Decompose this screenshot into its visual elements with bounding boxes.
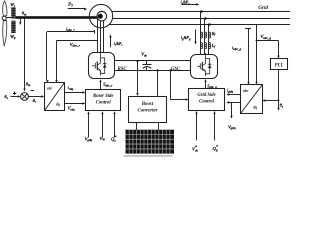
PV caption shadow <box>124 155 173 157</box>
stator bus line 1 <box>112 11 290 13</box>
node dc bottom <box>156 69 158 71</box>
generator shaft dot <box>98 14 103 19</box>
svg-text:RSC: RSC <box>118 67 128 72</box>
svg-text:θm: θm <box>26 81 31 87</box>
svg-text:Wt: Wt <box>10 2 15 8</box>
gearbox block bottom <box>11 20 15 33</box>
theta_m sensor arrow <box>19 19 21 25</box>
wire V_rdq <box>65 102 85 104</box>
generator outer circle <box>89 4 112 27</box>
svg-text:GSC: GSC <box>171 67 181 72</box>
inductor Lf b <box>204 43 206 49</box>
wire vdc sense <box>171 70 189 100</box>
wire V_abc_g tap <box>255 25 279 85</box>
summing junction <box>21 93 29 101</box>
svg-text:θr: θr <box>33 98 37 104</box>
svg-text:ig&Pg: ig&Pg <box>181 35 191 41</box>
node theta_s <box>278 100 280 102</box>
wire PLL theta_s out <box>262 70 279 111</box>
svg-text:Vrdq: Vrdq <box>68 106 75 112</box>
wire dc to boost 1 <box>136 61 138 96</box>
svg-text:Lf: Lf <box>211 43 216 49</box>
svg-text:ir&Pr: ir&Pr <box>114 41 124 47</box>
generator inner circle <box>97 11 107 21</box>
abc/dq transform rotor side <box>45 83 65 111</box>
inductor Lf a <box>200 43 202 49</box>
label plus <box>13 92 16 95</box>
capacitor Vdc <box>143 61 152 70</box>
svg-text:Vabc_r: Vabc_r <box>70 42 81 48</box>
svg-text:Vgdq: Vgdq <box>228 124 236 130</box>
rotor wire a <box>97 16 99 53</box>
wire V_W in <box>101 111 103 137</box>
svg-text:Grid Side: Grid Side <box>197 93 215 98</box>
ig&Pg arrow <box>194 30 196 45</box>
grid drop wire a <box>200 12 202 55</box>
svg-text:PLL: PLL <box>275 64 284 69</box>
turbine hub <box>2 16 6 20</box>
label minus <box>31 90 34 92</box>
wire boost to PV 2 <box>158 123 160 130</box>
wire V_abc_r tap <box>55 41 97 83</box>
shaft <box>16 16 101 19</box>
svg-text:Sabc_r: Sabc_r <box>103 82 113 88</box>
node bus b <box>204 17 206 19</box>
grid drop wire c <box>208 25 210 55</box>
converter GSC box <box>191 55 218 79</box>
svg-text:dq: dq <box>253 105 257 109</box>
svg-text:Control: Control <box>96 101 112 106</box>
stator bus line 2 <box>112 18 290 20</box>
wire Qg* ref <box>213 111 215 141</box>
svg-text:Vdc: Vdc <box>141 52 147 58</box>
node dc top <box>136 60 138 62</box>
wire theta_r <box>28 95 44 97</box>
GSC IGBT symbol <box>197 53 211 76</box>
svg-text:abc: abc <box>47 87 53 91</box>
wire i_abc_r tap <box>46 30 94 83</box>
wire V_gdq branch <box>230 102 232 119</box>
grid drop wire b <box>204 18 206 54</box>
svg-text:Grid: Grid <box>258 5 268 11</box>
wire Vdc* ref <box>195 111 197 141</box>
P_T arrow <box>68 8 87 11</box>
svg-text:abc: abc <box>243 89 249 93</box>
wire hub to gearbox <box>6 17 11 19</box>
node bus a <box>200 10 202 12</box>
svg-text:Control: Control <box>199 100 215 105</box>
wire S_abc_g <box>204 79 206 89</box>
Grid Side Control box <box>189 89 225 111</box>
dc link bottom wire <box>114 70 191 72</box>
node V_abc_g branch <box>256 40 258 42</box>
turbine blade top <box>3 1 7 16</box>
converter RSC box <box>89 53 115 79</box>
svg-text:igdq: igdq <box>227 88 233 94</box>
svg-text:dq: dq <box>56 103 60 107</box>
stator bus line 3 <box>109 24 290 26</box>
svg-text:θs: θs <box>4 94 8 100</box>
label Qg* <box>213 145 218 152</box>
wire v_gdq to control <box>226 101 240 103</box>
inductor Rf a <box>200 32 202 38</box>
wire theta_s in <box>11 95 21 97</box>
dc link top wire <box>114 60 191 62</box>
wire boost to PV 1 <box>136 123 138 130</box>
svg-text:iabc_r: iabc_r <box>66 26 75 32</box>
inductor Rf b <box>204 32 206 38</box>
Boost Converter box <box>129 97 167 123</box>
rotor wire b <box>100 16 102 53</box>
svg-text:irdq: irdq <box>68 85 74 91</box>
svg-text:Vgdq: Vgdq <box>85 136 93 142</box>
svg-text:iabc_g: iabc_g <box>232 45 241 51</box>
RSC IGBT symbol <box>92 52 106 75</box>
wire i_abc_g tap <box>245 29 251 85</box>
svg-text:Rf: Rf <box>211 31 217 37</box>
wire dc to boost 2 <box>157 70 159 96</box>
node vdc sense <box>169 69 171 71</box>
node bus c <box>208 23 210 25</box>
wire theta_m to summing junction <box>23 19 25 92</box>
is&Ps arrow <box>182 3 200 6</box>
wire i_gdq <box>226 93 240 95</box>
label Qs* <box>111 136 116 143</box>
svg-text:dc: dc <box>195 149 199 153</box>
rotor wire c <box>103 16 105 53</box>
abc/dq transform grid side <box>241 85 263 114</box>
svg-text:Wg: Wg <box>10 34 16 40</box>
turbine blade bottom <box>3 21 7 46</box>
PV array panel <box>126 130 175 154</box>
label Vdc* <box>192 146 199 153</box>
svg-text:Converter: Converter <box>137 108 157 113</box>
Rotor Side Control box <box>86 90 121 111</box>
svg-text:Vabc_g: Vabc_g <box>260 34 271 40</box>
svg-text:PT: PT <box>67 2 73 8</box>
svg-text:Boost: Boost <box>141 102 154 107</box>
inductor Lf c <box>208 43 210 49</box>
wire V_gdq in <box>87 111 89 137</box>
svg-text:Rotor Side: Rotor Side <box>93 94 113 99</box>
svg-text:VW: VW <box>100 136 106 142</box>
gearbox block top <box>11 7 15 19</box>
wire Qs* in <box>113 111 115 137</box>
wire i_rdq <box>65 91 85 93</box>
PLL box <box>271 59 288 70</box>
inductor Rf c <box>208 32 210 38</box>
svg-text:θm: θm <box>22 11 27 17</box>
wire S_abc_r <box>99 79 101 89</box>
ir&Pr arrow <box>109 34 111 47</box>
svg-text:θs: θs <box>280 103 284 109</box>
